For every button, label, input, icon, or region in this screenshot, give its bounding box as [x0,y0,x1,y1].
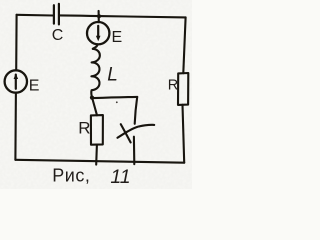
svg-text:C: C [52,27,64,44]
svg-text:R: R [168,78,178,94]
svg-text:11: 11 [110,166,130,188]
svg-text:L: L [107,65,118,86]
svg-text:R: R [78,119,90,138]
svg-text:Рис,: Рис, [52,166,90,186]
svg-text:E: E [29,77,40,94]
svg-text:E: E [112,29,123,46]
